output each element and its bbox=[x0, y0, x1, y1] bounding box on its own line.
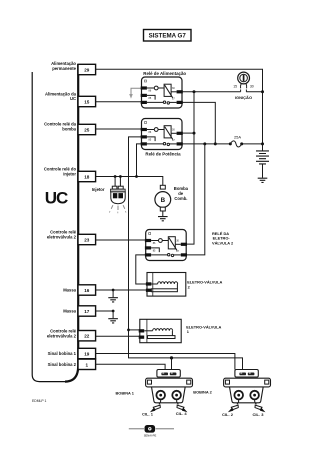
wire pin15 to relay U1 bbox=[96, 101, 141, 103]
bomba de combustível bbox=[155, 185, 171, 216]
svg-text:eletroválvula 2: eletroválvula 2 bbox=[47, 235, 77, 240]
pin 23 bbox=[78, 234, 96, 244]
junction supply to bobina 1 bbox=[170, 356, 173, 369]
svg-text:23: 23 bbox=[84, 238, 90, 243]
svg-text:1: 1 bbox=[86, 362, 89, 367]
junction injetor terminal 1 bbox=[114, 175, 117, 186]
svg-text:SENAI-PE: SENAI-PE bbox=[144, 433, 157, 437]
ignition switch bbox=[233, 72, 254, 92]
pin 19 bbox=[78, 348, 96, 358]
pin 29 bbox=[78, 64, 96, 74]
svg-text:EDMLP 1: EDMLP 1 bbox=[32, 399, 47, 403]
label RELÉ DA ELETRO-VÁLVULA 2 bbox=[212, 231, 234, 245]
svg-text:bomba: bomba bbox=[62, 127, 76, 132]
relay U2 Relé de Potência bbox=[141, 119, 183, 150]
fuse 25A bbox=[229, 140, 243, 147]
wire relay U1 pinE down to fuse line bbox=[182, 102, 217, 145]
wire ignition 30 to battery node bbox=[246, 91, 262, 93]
svg-text:15: 15 bbox=[233, 85, 237, 89]
ground massa 16 bbox=[108, 289, 118, 302]
svg-text:29: 29 bbox=[84, 68, 90, 73]
ground battery bbox=[258, 178, 268, 182]
svg-text:UC: UC bbox=[45, 188, 68, 207]
eletro-válvula 1 bbox=[139, 319, 182, 342]
svg-text:Relé de Alimentação: Relé de Alimentação bbox=[143, 71, 186, 76]
wire pin29 to battery node bbox=[96, 69, 263, 151]
svg-text:Comb.: Comb. bbox=[174, 196, 187, 201]
fuse line relay U2 pinE to battery bbox=[182, 143, 263, 145]
wire pin22 to eletro-válvula 1 bbox=[96, 335, 141, 337]
pin 16 bbox=[78, 285, 96, 295]
wire pin1 to bobina 1 bbox=[96, 364, 166, 369]
label Bomba de Comb. bbox=[174, 186, 189, 201]
svg-text:CIL. 4: CIL. 4 bbox=[176, 411, 188, 416]
UC block outline bbox=[32, 64, 78, 382]
node battery fuse corner bbox=[261, 142, 264, 145]
svg-text:30: 30 bbox=[250, 85, 254, 89]
label ELETRO-VÁLVULA 2 bbox=[187, 280, 222, 290]
svg-text:UC: UC bbox=[70, 96, 76, 101]
svg-text:22: 22 bbox=[84, 334, 90, 339]
svg-text:SISTEMA G7: SISTEMA G7 bbox=[149, 33, 187, 40]
svg-text:Massa: Massa bbox=[63, 288, 76, 293]
svg-text:18: 18 bbox=[84, 175, 90, 180]
label ELETRO-VÁLVULA 1 bbox=[186, 324, 221, 334]
arrow from relay U1 pinA bbox=[129, 88, 141, 98]
title box SISTEMA G7 bbox=[144, 30, 192, 42]
node fuse line to U3 bbox=[203, 142, 206, 145]
node battery top bbox=[261, 90, 264, 93]
svg-text:CIL. 1: CIL. 1 bbox=[142, 412, 154, 417]
battery bbox=[256, 151, 269, 178]
wire pin19 to bobina 2 bbox=[96, 354, 235, 370]
svg-text:25A: 25A bbox=[234, 134, 241, 139]
pin 25 bbox=[78, 124, 96, 134]
pin 1 bbox=[78, 359, 96, 369]
svg-text:VÁLVULA 2: VÁLVULA 2 bbox=[212, 240, 234, 245]
svg-text:Injetor: Injetor bbox=[92, 187, 105, 192]
junction injetor terminal 2 bbox=[119, 175, 122, 186]
svg-text:15: 15 bbox=[84, 100, 90, 105]
relay U1 Relé de Alimentação bbox=[141, 77, 183, 108]
svg-text:CIL. 3: CIL. 3 bbox=[253, 412, 265, 417]
svg-text:Sinal bobina 1: Sinal bobina 1 bbox=[48, 351, 77, 356]
svg-text:ELETRO-VÁLVULA: ELETRO-VÁLVULA bbox=[186, 324, 221, 329]
pin 22 bbox=[78, 331, 96, 341]
svg-text:permanente: permanente bbox=[52, 66, 76, 71]
wire relay U2 pinC to injetor line bbox=[135, 144, 141, 178]
svg-text:Massa: Massa bbox=[63, 309, 76, 314]
svg-text:ELETRO-VÁLVULA: ELETRO-VÁLVULA bbox=[187, 280, 222, 285]
svg-text:B: B bbox=[161, 197, 166, 204]
wire pin23 to relay U3 bbox=[96, 239, 146, 241]
ground bomba bbox=[158, 217, 168, 221]
svg-text:IGNIÇÃO: IGNIÇÃO bbox=[235, 95, 252, 100]
wire relay U3 pinC hook to eletro-válvula 2 bbox=[136, 255, 147, 284]
eletro-válvula 2 bbox=[146, 273, 186, 297]
svg-text:19: 19 bbox=[84, 352, 90, 357]
wire pin25 to relay U2 bbox=[96, 128, 141, 130]
wire vertical to relay U3 pinD bbox=[186, 92, 194, 244]
svg-text:Sinal bobina 2: Sinal bobina 2 bbox=[48, 362, 77, 367]
svg-text:16: 16 bbox=[84, 288, 90, 293]
bobina 1 bbox=[146, 370, 193, 412]
svg-text:injetor: injetor bbox=[63, 172, 76, 177]
bobina 2 bbox=[224, 370, 271, 412]
wire relay U2 pinB supply rail down to bobinas bbox=[129, 137, 243, 370]
svg-text:CIL. 2: CIL. 2 bbox=[222, 412, 234, 417]
ground massa 17 bbox=[108, 310, 118, 323]
pin 18 bbox=[78, 171, 96, 181]
wire massa 16 to eletro-válvula 2 bbox=[96, 289, 148, 291]
node switch15 branch bbox=[193, 90, 196, 93]
svg-text:Relé de Potência: Relé de Potência bbox=[145, 151, 181, 156]
junction supply to eletro-válvula 1 bbox=[127, 329, 140, 332]
svg-text:BOBINA 2: BOBINA 2 bbox=[193, 390, 212, 395]
wire massa 17 bbox=[96, 310, 114, 312]
wire down to relay U3 pinE bbox=[186, 144, 205, 255]
svg-text:17: 17 bbox=[84, 309, 90, 314]
svg-text:25: 25 bbox=[84, 128, 90, 133]
wire pin18 to injetor and bomba bbox=[96, 177, 163, 186]
svg-text:eletroválvula 2: eletroválvula 2 bbox=[47, 334, 77, 339]
wire relay U1 pinD to ignition switch 15 bbox=[182, 91, 241, 93]
wire relay U2 pinD bbox=[182, 132, 196, 135]
footer logo SENAI bbox=[129, 425, 174, 437]
relay U3 Relé da Eletro-válvula 2 bbox=[145, 230, 187, 261]
svg-text:BOBINA 1: BOBINA 1 bbox=[116, 390, 135, 395]
injetor bbox=[109, 186, 126, 213]
pin 15 bbox=[78, 96, 96, 106]
pin 17 bbox=[78, 306, 96, 316]
